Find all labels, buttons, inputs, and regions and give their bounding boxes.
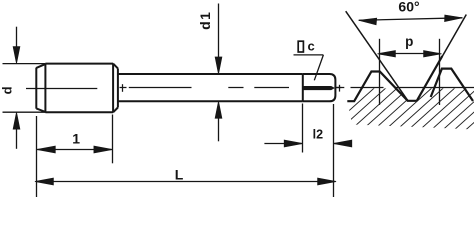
svg-text:c: c	[308, 39, 315, 54]
svg-text:60°: 60°	[398, 0, 419, 15]
svg-text:l2: l2	[313, 128, 323, 142]
svg-text:p: p	[405, 34, 413, 49]
svg-text:1: 1	[72, 131, 80, 147]
svg-text:L: L	[175, 166, 184, 182]
svg-text:d1: d1	[197, 11, 213, 30]
svg-text:d: d	[0, 86, 14, 94]
